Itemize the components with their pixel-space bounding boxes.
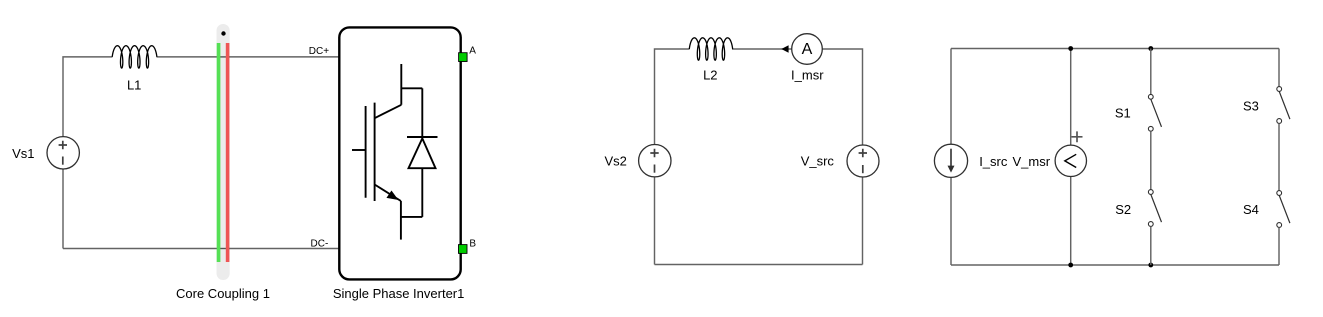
svg-text:Vs2: Vs2 [605,154,627,169]
svg-text:DC-: DC- [311,239,329,250]
wire between S1 and S2 [1150,131,1152,189]
wire bottom [951,264,1279,266]
voltmeter V_msr circle [1055,145,1086,176]
wire left vertical above I_src [950,49,952,145]
wire left vertical below I_src [950,177,952,265]
junction dot bottom S1 [1148,263,1153,268]
wire right vertical below V_src [862,177,864,265]
svg-text:V_msr: V_msr [1013,154,1051,169]
core coupling green stripe [217,43,221,262]
IGBT collector-diode branch [401,87,422,89]
switch S2 [1148,190,1161,227]
svg-text:I_src: I_src [979,154,1008,169]
svg-text:Single Phase Inverter1: Single Phase Inverter1 [333,286,465,301]
IGBT emitter stub [400,201,402,240]
IGBT emitter arrow [387,191,397,199]
svg-text:B: B [469,239,476,250]
switch S1 [1148,94,1161,131]
diode top lead [421,88,423,138]
IGBT collector stub [400,64,402,105]
svg-text:V_src: V_src [801,154,835,169]
voltage source V_src [847,145,879,177]
ammeter arrow [781,45,788,53]
IGBT emitter-diode branch [401,216,422,218]
wire left vertical below Vs2 [654,177,656,265]
core coupling dot [221,31,225,35]
wire S1 branch above [1150,49,1152,95]
terminal B [459,245,468,254]
svg-text:Vs1: Vs1 [12,146,34,161]
current source I_src [934,144,967,177]
voltmeter plus mark [1072,131,1083,142]
voltmeter V rotated (<) [1065,154,1076,167]
wire V_msr branch above [1070,49,1072,146]
voltage source Vs1 [47,137,79,169]
svg-text:S2: S2 [1115,202,1131,217]
svg-text:S3: S3 [1243,98,1259,113]
diode cathode bar [407,136,438,138]
single phase inverter block border [339,27,460,279]
terminal A [459,53,468,62]
inductor L1 [112,46,157,68]
svg-text:DC+: DC+ [309,46,329,57]
svg-text:S4: S4 [1243,202,1259,217]
diode bottom lead [421,168,423,217]
wire bottom DC- [63,248,339,250]
wire crossing under stripes (top) [217,56,231,58]
inductor L2 [689,38,732,60]
svg-text:L1: L1 [127,78,141,93]
junction dot top S1 [1148,46,1153,51]
svg-text:A: A [802,41,813,58]
svg-text:L2: L2 [703,68,717,83]
wire from L1 to inverter DC+ [157,56,340,58]
svg-text:S1: S1 [1115,106,1131,121]
wire left vertical below Vs1 [62,169,64,249]
wire L2 to ammeter [732,48,792,50]
ammeter I_msr circle [792,34,823,65]
wire top-left from corner to L1 [63,57,112,137]
svg-text:Core Coupling 1: Core Coupling 1 [176,286,270,301]
wire ammeter to top-right corner down to V_src [823,49,863,145]
svg-text:I_msr: I_msr [791,68,824,83]
wire below S2 [1150,226,1152,265]
IGBT gate bar [365,106,367,198]
diode triangle [409,138,436,168]
wire crossing under stripes (bottom) [217,248,231,250]
wire below S4 [1278,227,1280,265]
switch S4 [1277,191,1290,228]
IGBT emitter diagonal [375,185,401,202]
wire top-left corner to L2 [655,49,690,144]
switch S3 [1277,87,1290,124]
wire V_msr branch below [1070,177,1072,266]
IGBT gate lead [352,149,366,151]
junction dot bottom V_msr [1068,263,1073,268]
wire bottom [655,264,863,266]
IGBT collector diagonal [375,105,402,118]
IGBT body bar [374,103,376,201]
wire right vertical above S3 [1278,49,1280,87]
core coupling red stripe [226,43,230,262]
wire between S3 and S4 [1278,123,1280,190]
svg-text:A: A [469,45,476,56]
voltage source Vs2 [639,145,671,177]
core coupling bar [217,24,230,280]
junction dot top V_msr [1068,46,1073,51]
wire top [951,48,1279,50]
